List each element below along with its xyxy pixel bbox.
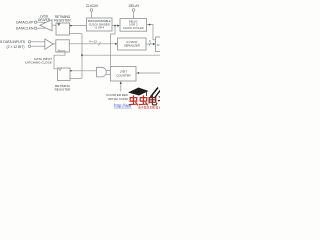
- wire clock to 2-bit counter: [111, 26, 116, 67]
- wire serializer to DAC: [146, 39, 156, 46]
- wire register B Q to AND gate: [70, 70, 97, 72]
- svg-text:电子发烧友网 电子发烧: 电子发烧友网 电子发烧: [138, 106, 160, 110]
- retiming register A box: [56, 23, 70, 35]
- svg-text:CLOCK CYCLES: CLOCK CYCLES: [123, 26, 144, 30]
- pin DELAY: [129, 4, 141, 19]
- main retiming clock rail vertical: [81, 34, 83, 79]
- delay box: [120, 19, 147, 32]
- pin CLKDIV: [86, 4, 99, 18]
- LVDS driver triangle: [40, 20, 52, 31]
- svg-text:DATACLKN: DATACLKN: [16, 27, 34, 31]
- junction dot: [70, 25, 72, 27]
- watermark diagonal strokes: [151, 88, 161, 99]
- svg-text:SERIALIZER: SERIALIZER: [124, 43, 140, 47]
- pin DATACLKN: [16, 27, 46, 31]
- svg-text:http://ww: http://ww: [114, 103, 132, 108]
- latch box: [56, 40, 70, 52]
- svg-text:REGISTER: REGISTER: [55, 88, 72, 92]
- retiming register B box: [58, 68, 71, 81]
- retiming register A label: [54, 15, 71, 22]
- pin LVDS data inputs: [0, 40, 45, 49]
- svg-text:4:1 MUX/: 4:1 MUX/: [126, 40, 137, 44]
- watermark logo black cap: [128, 88, 149, 97]
- wire register B clock from rail: [70, 77, 82, 79]
- wire register A D input from divider: [70, 25, 87, 27]
- programmable clock divider box: [87, 18, 113, 31]
- LVDS receiver triangle: [45, 39, 53, 49]
- retiming register B label: [55, 84, 72, 92]
- wire register A clock: [70, 33, 83, 35]
- svg-text:LVDS DATA INPUTS: LVDS DATA INPUTS: [0, 40, 26, 44]
- LVDS driver U1 label: [38, 14, 51, 21]
- svg-text:LATCHING CLOCK: LATCHING CLOCK: [25, 61, 53, 65]
- svg-text:REGISTER: REGISTER: [54, 18, 71, 22]
- DAC register box (cut at edge): [156, 37, 164, 52]
- background: [0, 0, 160, 110]
- AND gate: [97, 67, 111, 77]
- junction dot clock rail: [81, 54, 83, 56]
- svg-text:CLKDIV: CLKDIV: [86, 4, 99, 8]
- svg-text:DELAY: DELAY: [129, 4, 141, 8]
- wire receiver to latch: [53, 43, 56, 45]
- svg-text:COUNTER: COUNTER: [116, 73, 130, 77]
- wire counter output: [136, 72, 160, 74]
- wire delay output to DAC register clock: [147, 24, 156, 40]
- data input latching clock net: [25, 51, 65, 69]
- clock rail horizontal to DAC: [82, 54, 160, 56]
- 4:1 mux serializer box: [118, 38, 146, 50]
- wire driver to retiming register A: [52, 24, 56, 26]
- annotation arrow counter initial condition: [106, 81, 129, 101]
- svg-text:INITIAL COND: INITIAL COND: [108, 97, 129, 101]
- wire divider to delay: [112, 25, 120, 27]
- svg-text:4 × 12: 4 × 12: [89, 39, 97, 43]
- svg-text:÷2 OR 4: ÷2 OR 4: [94, 26, 104, 30]
- pin DATACLKP: [16, 21, 45, 25]
- svg-text:(2 × 12 BIT): (2 × 12 BIT): [7, 45, 25, 49]
- wire latch to serializer 4x12 bus: [69, 39, 117, 45]
- svg-text:DATACLKP: DATACLKP: [16, 21, 34, 25]
- 2-bit counter box: [111, 67, 137, 82]
